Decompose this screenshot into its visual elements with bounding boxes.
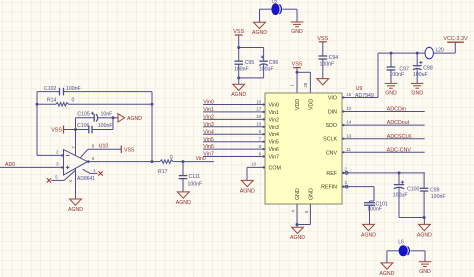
- svg-text:Vin1: Vin1: [203, 107, 214, 113]
- svg-text:100uF: 100uF: [413, 72, 428, 78]
- svg-text:16: 16: [256, 99, 261, 104]
- capacitor C101: [364, 201, 388, 224]
- op-amp pin 5 no-connect: [47, 170, 76, 182]
- power port VSS digital: [292, 62, 303, 73]
- wire V+ rail: [71, 118, 77, 156]
- ground AGND C111: [176, 192, 191, 206]
- svg-text:VSS: VSS: [233, 29, 244, 35]
- wire AD0 to op-amp pin 3: [0, 166, 64, 168]
- part name AD8641: [77, 176, 95, 182]
- svg-text:C96: C96: [269, 60, 279, 66]
- inductor L6: [398, 239, 409, 255]
- pin 13 SCLK: [323, 133, 425, 142]
- pin 3 REFIN: [321, 180, 374, 201]
- op-amp pin 8 wire to VSS: [80, 144, 121, 159]
- svg-text:100nF: 100nF: [390, 72, 405, 78]
- net label ADC-CNV: [387, 147, 412, 153]
- svg-text:100nF: 100nF: [66, 86, 81, 92]
- net label AD0: [5, 162, 15, 168]
- wire VDD pins: [290, 71, 311, 93]
- svg-text:GND: GND: [419, 269, 431, 275]
- svg-text:AGND: AGND: [417, 232, 432, 238]
- resistor R14: [37, 98, 152, 107]
- pin 12 DIN: [328, 106, 425, 115]
- svg-text:100nF: 100nF: [188, 182, 203, 188]
- svg-text:R17: R17: [158, 169, 168, 175]
- svg-text:U9: U9: [356, 86, 363, 92]
- svg-text:Vin4: Vin4: [269, 132, 280, 138]
- svg-text:COM: COM: [269, 165, 281, 171]
- svg-text:12: 12: [347, 106, 352, 111]
- part name AD7949: [355, 93, 374, 99]
- svg-text:U10: U10: [99, 144, 109, 150]
- svg-text:Vin0: Vin0: [269, 103, 280, 109]
- svg-text:C111: C111: [189, 174, 201, 180]
- wire L6 right: [411, 251, 426, 262]
- svg-text:GND: GND: [309, 188, 315, 200]
- svg-text:Vin2: Vin2: [203, 115, 214, 121]
- pin 2 REF: [326, 166, 425, 177]
- power port VSS op-amp rail: [51, 126, 75, 134]
- inductor L20: [425, 47, 444, 59]
- pin 18 Vin2: [203, 114, 279, 123]
- svg-text:100uF: 100uF: [259, 67, 274, 73]
- net label Vin1: [203, 107, 214, 113]
- svg-text:AGND: AGND: [176, 200, 191, 206]
- svg-text:13: 13: [347, 133, 352, 138]
- capacitor C97: [387, 53, 409, 83]
- ground AGND L6: [379, 263, 394, 277]
- op-amp pin 1 no-connect: [83, 168, 103, 176]
- net label Vin3: [203, 122, 214, 128]
- capacitor C96: [259, 56, 279, 78]
- wire feedback to output node: [151, 92, 154, 162]
- svg-text:AGND: AGND: [68, 207, 83, 213]
- power port VSS C94: [317, 36, 328, 42]
- power port VSS analog caps: [233, 29, 244, 47]
- op-amp U10 triangle: [56, 149, 95, 175]
- svg-text:Vin4: Vin4: [203, 129, 214, 135]
- svg-text:C102: C102: [44, 86, 57, 92]
- power port VCC-3.3V: [443, 36, 468, 53]
- net label Vin5: [203, 137, 214, 143]
- svg-text:VCC-3.3V: VCC-3.3V: [443, 36, 468, 42]
- svg-text:20: 20: [303, 82, 308, 87]
- pin 7 Vin5: [203, 137, 279, 146]
- ground GND L6: [419, 262, 432, 275]
- svg-text:ADCDout: ADCDout: [387, 120, 410, 126]
- svg-text:Vin3: Vin3: [269, 125, 280, 131]
- pin 6 Vin4: [203, 129, 279, 138]
- svg-text:SDO: SDO: [326, 123, 337, 129]
- capacitor C100: [393, 171, 420, 217]
- net label ADCDin: [387, 107, 406, 113]
- wire L6 left: [387, 251, 399, 263]
- ground AGND C101: [361, 224, 376, 238]
- pin 11 CNV: [326, 147, 425, 156]
- wire analog supply rail: [378, 52, 455, 55]
- wire cap bottom rail: [237, 76, 263, 79]
- svg-text:Vin5: Vin5: [269, 140, 280, 146]
- capacitor C98: [413, 53, 433, 83]
- svg-text:VIO: VIO: [328, 96, 337, 102]
- pin 19 Vin3: [203, 122, 279, 131]
- svg-text:R14: R14: [47, 98, 57, 104]
- net label ADCSCLK: [387, 134, 412, 140]
- wire VIO riser: [377, 53, 379, 97]
- ground AGND L5: [252, 22, 267, 36]
- ground GND C98: [411, 83, 424, 96]
- svg-text:C99: C99: [430, 187, 440, 193]
- svg-text:0: 0: [72, 98, 75, 104]
- wire op-amp output: [88, 160, 153, 163]
- svg-text:L20: L20: [436, 48, 445, 54]
- ground AGND IC: [290, 225, 305, 242]
- ground triangle C94: [317, 79, 329, 85]
- svg-text:Vin5: Vin5: [203, 137, 214, 143]
- svg-text:C106: C106: [77, 123, 90, 129]
- IC U9 AD7949 body: [265, 93, 342, 204]
- svg-text:ADCSCLK: ADCSCLK: [387, 134, 412, 140]
- capacitor C94: [319, 42, 339, 79]
- wire L5 left: [260, 9, 272, 22]
- net label ADCDout: [387, 120, 410, 126]
- svg-text:AD8641: AD8641: [77, 176, 95, 182]
- pin 14 SDO: [326, 120, 425, 129]
- svg-text:VDD: VDD: [309, 99, 315, 110]
- wire inverting feedback node: [36, 92, 64, 157]
- svg-text:C100: C100: [407, 186, 420, 192]
- power port VSS pin 8: [121, 146, 135, 154]
- svg-text:AGND: AGND: [231, 92, 246, 98]
- svg-text:Vin2: Vin2: [269, 117, 280, 123]
- svg-text:VDD: VDD: [295, 99, 301, 110]
- resistor R17: [152, 155, 183, 175]
- svg-text:100nF: 100nF: [234, 67, 249, 73]
- net label Vin6: [203, 144, 214, 150]
- svg-text:AGND: AGND: [361, 232, 376, 238]
- svg-text:17: 17: [256, 107, 261, 112]
- svg-text:L6: L6: [398, 239, 404, 245]
- svg-text:100nF: 100nF: [98, 123, 113, 129]
- svg-text:100nF: 100nF: [367, 207, 382, 213]
- ground AGND op-amp: [68, 199, 83, 213]
- svg-text:Vin6: Vin6: [203, 144, 214, 150]
- svg-text:18: 18: [256, 114, 261, 119]
- capacitor C111: [179, 162, 203, 192]
- svg-text:SCLK: SCLK: [323, 137, 337, 143]
- wire cap top rail: [237, 46, 263, 60]
- net label Vin2: [203, 115, 214, 121]
- svg-text:100nF: 100nF: [320, 61, 335, 67]
- ground AGND COM: [240, 180, 255, 194]
- svg-text:14: 14: [347, 120, 352, 125]
- svg-text:C94: C94: [329, 55, 339, 61]
- svg-text:AGND: AGND: [240, 188, 255, 194]
- ground AGND REF caps: [417, 224, 432, 238]
- svg-text:AGND: AGND: [379, 271, 394, 277]
- pin name GND labels: [295, 188, 314, 200]
- pin 15 VIO: [328, 92, 378, 101]
- svg-text:Vin6: Vin6: [269, 147, 280, 153]
- svg-text:15: 15: [347, 92, 352, 97]
- ground GND C97: [385, 83, 398, 96]
- svg-text:C105: C105: [77, 112, 90, 118]
- ground GND L5: [291, 22, 304, 35]
- svg-text:GND: GND: [411, 91, 423, 97]
- svg-text:VSS: VSS: [124, 148, 135, 154]
- designator U9: [356, 86, 363, 92]
- wire L5 right: [283, 9, 298, 22]
- svg-text:C95: C95: [245, 60, 255, 66]
- svg-text:GND: GND: [295, 188, 301, 200]
- net label Vin7: [203, 152, 214, 158]
- svg-text:100uF: 100uF: [393, 193, 408, 199]
- svg-text:CNV: CNV: [326, 150, 338, 156]
- svg-text:AGND: AGND: [290, 235, 305, 241]
- svg-text:Vin7: Vin7: [269, 155, 280, 161]
- ground AGND C95 C96: [231, 78, 246, 98]
- wire REF ground rail: [399, 216, 426, 224]
- svg-text:11: 11: [347, 147, 352, 152]
- svg-text:REFIN: REFIN: [321, 185, 337, 191]
- svg-text:AGND: AGND: [252, 30, 267, 36]
- svg-text:VSS: VSS: [292, 62, 303, 68]
- inductor L5: [272, 0, 282, 15]
- svg-text:AGND: AGND: [127, 116, 142, 122]
- svg-text:19: 19: [256, 122, 261, 127]
- svg-text:C98: C98: [423, 65, 433, 71]
- pin 9 Vin7: [203, 151, 279, 160]
- svg-text:Vin0: Vin0: [203, 100, 214, 106]
- pin 10 COM: [247, 162, 281, 181]
- net label Vin0 output: [196, 156, 206, 162]
- net label Vin0: [203, 100, 214, 106]
- capacitor C95: [234, 48, 254, 78]
- pin 17 Vin1: [203, 107, 279, 116]
- pin 8 Vin6: [203, 144, 279, 153]
- node Vin0: [182, 160, 215, 163]
- pin name VDD labels: [295, 99, 314, 110]
- op-amp pin 4 wire: [68, 168, 76, 199]
- svg-text:ADC-CNV: ADC-CNV: [387, 147, 412, 153]
- svg-text:Vin7: Vin7: [203, 152, 214, 158]
- svg-text:REF: REF: [326, 171, 337, 177]
- svg-text:10: 10: [251, 162, 256, 167]
- svg-text:ADCDin: ADCDin: [387, 107, 406, 113]
- svg-text:GND: GND: [385, 91, 397, 97]
- capacitor C106: [76, 118, 114, 134]
- svg-text:0: 0: [170, 155, 173, 161]
- capacitor C99: [420, 173, 446, 218]
- pin 4 5 GND wires: [291, 204, 311, 226]
- svg-text:GND: GND: [291, 29, 303, 35]
- svg-text:VSS: VSS: [51, 128, 62, 134]
- capacitor C105: [76, 112, 114, 122]
- pin 16 Vin0: [203, 99, 279, 108]
- svg-text:10nF: 10nF: [101, 112, 113, 118]
- designator U10: [99, 144, 109, 150]
- svg-text:Vin1: Vin1: [269, 110, 280, 116]
- capacitor C102: [37, 86, 152, 95]
- svg-text:Vin3: Vin3: [203, 122, 214, 128]
- power port AGND arrow: [112, 114, 143, 122]
- svg-text:DIN: DIN: [328, 110, 337, 116]
- svg-text:100nF: 100nF: [431, 194, 446, 200]
- svg-text:VSS: VSS: [317, 36, 328, 42]
- net label Vin4: [203, 129, 214, 135]
